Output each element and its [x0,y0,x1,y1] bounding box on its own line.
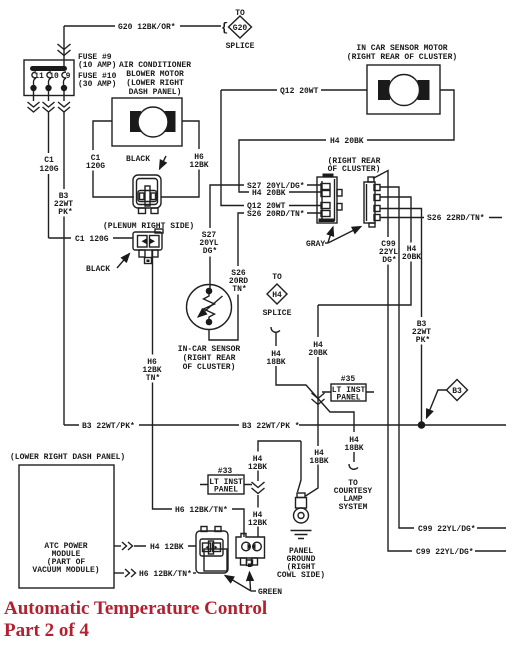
junction dot B3 [418,421,426,429]
caption right rear of cluster (connectors) [328,157,381,174]
svg-text:12BK: 12BK [248,519,267,528]
svg-text:GRAY: GRAY [306,240,325,249]
ATC power module box [19,465,114,588]
wire C1 120G horizontal to connector [49,235,134,244]
connector gray left half [317,174,342,224]
svg-text:OF CLUSTER): OF CLUSTER) [183,363,236,372]
panel ground lamp socket [294,493,309,523]
caption ATC power module [32,542,99,575]
wire C99 pin1 [380,187,506,534]
fuse labels [78,53,117,89]
svg-text:COWL SIDE): COWL SIDE) [277,571,325,580]
svg-text:(LOWER RIGHT DASH PANEL): (LOWER RIGHT DASH PANEL) [10,453,125,462]
svg-text:BLACK: BLACK [86,265,110,274]
svg-text:SYSTEM: SYSTEM [339,503,368,512]
svg-text:PK*: PK* [58,208,72,217]
caption to courtesy lamp system [334,479,373,512]
svg-text:Q12 20WT: Q12 20WT [280,87,319,96]
fuse pin 10 [45,72,59,101]
svg-text:GREEN: GREEN [258,588,282,597]
svg-text:S26 20RD/TN*: S26 20RD/TN* [247,210,305,219]
svg-text:VACUUM MODULE): VACUUM MODULE) [32,566,99,575]
inline connectors under fuse block [28,102,40,112]
fuse block box [24,60,74,96]
svg-text:12BK: 12BK [248,463,267,472]
caption panel ground [277,547,325,580]
wire S27 20YL/DG* [199,182,321,291]
wire blower motor right lead H6 12BK [161,121,209,197]
wire H6 12BK/TN* from module [114,569,196,579]
wire C99 22YL/DG* from connector top [373,171,506,558]
splice B3 diamond [427,380,468,419]
svg-text:G20: G20 [233,24,248,33]
svg-text:SPLICE: SPLICE [263,309,292,318]
svg-text:(PLENUM RIGHT SIDE): (PLENUM RIGHT SIDE) [103,222,194,231]
label BLACK (blower connector) [126,155,166,169]
svg-text:H6 12BK/TN*: H6 12BK/TN* [175,506,228,515]
wire C1 120G from fuse pin 10 [39,112,58,238]
svg-text:18BK: 18BK [266,358,285,367]
wire S26 22RD/TN* pin4 [380,214,502,223]
wire H4 20BK / 18BK to panel ground [306,305,329,496]
fuse pin 11 [30,72,44,101]
svg-text:PANEL: PANEL [336,394,360,403]
wire H4 20BK (motor to connector) [239,90,454,198]
svg-text:SPLICE: SPLICE [226,42,255,51]
svg-text:B3: B3 [452,387,462,396]
svg-text:BLACK: BLACK [126,155,150,164]
svg-text:#35: #35 [341,375,356,384]
svg-text:Part 2 of 4: Part 2 of 4 [4,620,89,641]
svg-text:(RIGHT REAR OF CLUSTER): (RIGHT REAR OF CLUSTER) [347,53,457,62]
svg-text:{: { [221,21,228,35]
inline connector on G20 wire [58,44,71,56]
svg-text:PANEL: PANEL [214,486,238,495]
svg-text:20BK: 20BK [402,253,421,262]
svg-text:(LOWER RIGHT: (LOWER RIGHT [126,79,184,88]
wire Q12 20WT (motor to connector) [221,87,367,211]
svg-text:C99 22YL/DG*: C99 22YL/DG* [418,525,476,534]
svg-text:H4 12BK: H4 12BK [150,543,184,552]
connector gray right half [364,177,380,227]
svg-text:DG*: DG* [203,247,217,256]
svg-text:B3 22WT/PK*: B3 22WT/PK* [82,422,135,431]
in car sensor motor M2 [378,75,430,106]
svg-text:IN CAR SENSOR MOTOR: IN CAR SENSOR MOTOR [356,44,447,53]
svg-text:C1 120G: C1 120G [75,235,109,244]
connector C1 (black) [133,229,163,264]
in-car sensor (thermistor) [187,285,232,330]
inline connector on H4 wire [312,393,325,405]
label GREEN with arrows [225,572,282,597]
svg-text:TN*: TN* [232,285,246,294]
#33 LT INST PANEL [200,467,252,495]
connector (black) at plenum right side [133,175,161,214]
svg-text:Automatic Temperature Control: Automatic Temperature Control [4,598,267,619]
svg-text:AIR CONDITIONER: AIR CONDITIONER [119,61,191,70]
svg-text:S26 22RD/TN*: S26 22RD/TN* [427,214,485,223]
label BLACK (C1 connector) [86,254,130,275]
ground symbol [291,531,312,539]
blower motor box [112,98,182,146]
svg-text:10: 10 [49,72,59,81]
#35 LT INST PANEL [322,375,374,403]
wire H4 18BK from splice [266,327,363,469]
svg-text:H6 12BK/TN*: H6 12BK/TN* [139,570,192,579]
svg-text:TN*: TN* [146,374,160,383]
svg-text:TO: TO [272,273,282,282]
wire G20 12BK/OR* [64,21,228,35]
wire H6 12BK/TN* down from connector [142,250,244,537]
connector (left bottom, green) [196,527,228,574]
svg-text:H4: H4 [272,291,282,300]
svg-text:C99 22YL/DG*: C99 22YL/DG* [416,548,474,557]
splice H4 diamond [263,273,292,318]
caption in car sensor motor [347,44,457,62]
svg-text:OF CLUSTER): OF CLUSTER) [328,165,381,174]
wire H4 20BK pin2 [318,197,421,305]
wire from G20 to fuse block [63,26,65,66]
inline connector on H4 12BK wire [252,482,265,494]
wire B3 22WT/PK* main [64,422,506,431]
svg-text:G20 12BK/OR*: G20 12BK/OR* [118,23,176,32]
label GRAY with arrows [306,227,361,250]
fuse bus bar [30,66,67,71]
wire B3 22WT/PK* from fuse pin 9 [54,112,73,425]
svg-text:C1: C1 [44,156,54,165]
fuse pin 9 [61,72,71,101]
svg-text:120G: 120G [86,162,105,171]
svg-text:20BK: 20BK [308,349,327,358]
svg-text:DG*: DG* [382,256,396,265]
svg-text:11: 11 [34,72,44,81]
svg-text:TO: TO [235,9,245,18]
svg-text:DASH PANEL): DASH PANEL) [129,88,182,97]
connector (right bottom, green) [236,534,265,568]
wire H4 12BK loop to lamp [248,441,301,537]
svg-text:18BK: 18BK [309,457,328,466]
wire B3 22WT PK* pin3 [380,209,431,424]
svg-text:H4 20BK: H4 20BK [252,189,286,198]
svg-text:18BK: 18BK [344,444,363,453]
svg-text:BLOWER MOTOR: BLOWER MOTOR [126,70,184,79]
svg-text:(RIGHT REAR: (RIGHT REAR [183,354,236,363]
svg-text:PK*: PK* [416,336,430,345]
svg-text:12BK: 12BK [189,161,208,170]
wire H4 12BK from module [114,542,196,552]
svg-text:9: 9 [66,72,71,81]
blower motor M1 [130,107,176,137]
splice G20 diamond [226,9,255,51]
svg-text:B3 22WT/PK *: B3 22WT/PK * [242,422,300,431]
in car sensor motor box [367,65,440,114]
svg-text:IN-CAR SENSOR: IN-CAR SENSOR [178,345,241,354]
svg-text:H4 20BK: H4 20BK [330,137,364,146]
svg-text:120G: 120G [39,165,58,174]
svg-text:(30 AMP): (30 AMP) [78,80,116,89]
wire blower motor left lead C1 120G [86,121,134,197]
svg-text:(10 AMP): (10 AMP) [78,61,116,70]
air conditioner blower motor caption [119,61,191,97]
wire S26 20RD/TN* (sensor to connector) [209,210,321,340]
caption in-car sensor [178,345,241,372]
